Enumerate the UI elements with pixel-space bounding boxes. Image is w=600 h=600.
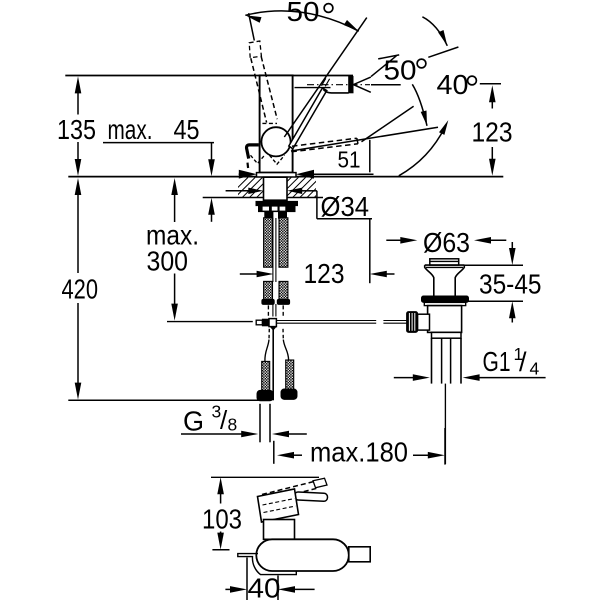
supply hose right mid [279,281,288,299]
waste neck left [425,265,434,296]
front lever dashed upper [262,481,316,495]
50-deg arc 1 [245,11,358,31]
dim 40 ext right [277,576,279,600]
flange arrow right [296,170,314,179]
dim 123h tail right [385,273,395,275]
dim 135 line [77,91,79,114]
dim 420 bottom line [68,399,271,401]
pull rod to drain segment 1 [276,320,376,322]
spout angle tick [378,55,399,59]
grip break tick 1 [322,78,326,86]
spout swung axis S1 [291,127,438,151]
arc1 left arrowhead [245,15,261,22]
max45 lower arrow [208,198,215,215]
dim O34 tail left [226,190,249,192]
rod coupling small box [256,320,262,325]
dim 123h tail left [240,273,259,275]
waste tailpipe outer [431,338,433,383]
nut slot 2 [272,207,278,211]
arc1 right arrowhead [344,20,359,31]
front body neck [264,520,295,540]
dim 3545 arrow up [509,301,516,318]
front spout body capsule [256,539,349,571]
spout angle leader up [371,56,396,77]
dim 420 arrow up [75,178,82,195]
svg-text:35-45: 35-45 [479,268,542,299]
waste flange top [425,264,465,266]
lever position right edge 2 (dashed) [291,144,358,152]
ball joint [261,127,290,156]
spout horizontal dim line [371,84,401,86]
dim 3545 ext bottom [469,300,524,302]
svg-text:/: / [519,347,527,377]
dim 123v arrow up [489,85,496,102]
dim O63 arrow right [474,237,491,244]
max180 ext right [444,428,446,465]
waste plug cap inner line [430,260,459,262]
123 extension lower segment [369,219,371,283]
pull rod horizontal left [167,321,253,323]
hose end cap right [281,389,297,399]
50-deg arc 2 [422,17,447,46]
max180 ext left [273,441,275,464]
svg-text:50: 50 [384,55,417,86]
dim 40 arrow left [230,586,247,593]
grip break tick 2 [325,79,329,87]
hose end cap left [257,391,273,401]
pull rod to drain segment 2 [383,320,406,322]
cartridge hidden line [262,122,277,124]
flange arrow left [239,170,257,179]
lever extreme line L1 [249,13,255,40]
dim 135 arrow up [75,76,82,93]
max-height reference line [65,75,353,77]
dim O34 arrow right [287,188,302,194]
dim 420 line [77,193,79,273]
lever right reference line [428,47,458,57]
dim 3545 arrow down [509,248,516,265]
dim O63 arrow left [400,237,417,244]
dim 40 arrow right [278,586,295,593]
svg-text:4: 4 [530,359,540,379]
lever position up-left edge 2 (dashed) [261,57,277,120]
hose S-curve right [282,329,284,340]
nut slot 3 [280,207,286,211]
lever tube [289,88,327,149]
drain centerline [444,384,446,464]
knob knurl lines [409,313,414,331]
dim G38 line [181,433,243,435]
dim 103 arrow up [217,477,224,494]
dim 103 bottom tick [212,549,229,551]
supply hose right upper [279,218,288,267]
svg-text:135: 135 [57,114,96,145]
51 dim tail [314,173,374,175]
40-deg leader arc [399,124,447,176]
waste lower flange [424,302,465,305]
dim max300 line [174,193,176,222]
spout end open arrow [353,77,370,92]
waste body bottom rim [432,332,462,338]
deck cross-section hatching [228,177,342,197]
svg-text:123: 123 [472,117,513,148]
svg-text:G: G [183,406,204,437]
lever position right edge 1 (dashed) [292,138,357,146]
hose S-curve left [268,329,270,340]
waste neck right [455,265,464,296]
waste rod connector [418,314,430,330]
svg-text:103: 103 [202,504,242,535]
hose connector left [262,361,270,390]
dim O34 arrow left [248,188,263,194]
dim 135 arrow down [75,159,82,176]
dim G38 arrow right [241,431,258,438]
max45 arrow down [208,159,215,176]
front aerator [349,547,370,562]
arc2 arrowhead [438,30,447,46]
hose nut left [265,212,273,218]
dim O63 tail left [386,239,402,241]
lever position up-left edge 1 (dashed) [251,58,267,122]
mounting shank [264,177,288,200]
dim G114 tail right [478,377,546,379]
dim 40 ext left [246,558,248,600]
lever position right tip cap [357,138,358,144]
svg-text:40: 40 [248,573,281,600]
valve seat dashed V left [251,155,265,163]
svg-text:max.: max. [108,114,153,145]
dim 103 arrow down [217,533,224,550]
deck bottom line [203,197,323,199]
svg-text:Ø63: Ø63 [423,227,470,258]
hose nut right [279,212,287,218]
front lever tip [313,478,327,488]
handle swung axis line [362,106,414,142]
svg-text:max.180: max.180 [310,436,408,467]
pop-up rod mid segment [272,304,274,317]
svg-text:45: 45 [174,114,200,145]
svg-text:300: 300 [147,245,189,276]
flange arrow left tail [239,173,241,175]
svg-text:8: 8 [228,415,238,435]
waste gasket [422,296,469,302]
max180 arrow right [428,452,445,459]
dim 3545 ext top [464,264,523,266]
dim 123v tick [480,83,501,85]
pop-up rod upper segment [272,218,274,282]
svg-text:123: 123 [304,258,345,289]
lever grip mid line [295,87,331,89]
103 top reference line [211,476,319,478]
waste plug cap [430,259,459,265]
lever grip end cap [349,76,353,92]
svg-text:40: 40 [437,69,469,100]
shank washer [256,201,298,205]
rod coupling body [269,319,276,327]
waste knurled knob [407,312,418,333]
max180 arrow left [277,452,294,459]
hose ferrule left [262,299,274,304]
supply hose left mid [264,281,273,299]
svg-text:420: 420 [62,274,99,305]
mounting nut [259,206,296,212]
faucet body [260,75,293,172]
supply hose left upper [264,218,273,267]
max45 leader [103,142,214,144]
spout outlet [247,145,259,159]
svg-text:50: 50 [287,0,320,27]
40-deg leader arrowhead [439,120,448,135]
dim G114 arrow left [413,374,430,381]
rod coupling wedge [270,327,277,331]
waste flange bottom [426,266,463,268]
front lever grip [294,492,327,502]
dim 123h arrow left [257,271,274,278]
dim max300 arrow down [171,304,178,321]
valve seat dashed V right [270,155,285,164]
deck top line [68,176,503,178]
front lever dashed lower [265,488,318,502]
rod coupling block [262,319,269,326]
front escutcheon strip [238,554,296,575]
dim G38 arrow left [272,431,289,438]
housing hidden line 1 [263,499,295,506]
lever position up-left tip (dashed) [249,41,261,58]
hose dashed left [267,305,269,315]
svg-text:51: 51 [338,147,361,173]
max45 lower shaft [211,213,213,222]
housing hidden line 2 [264,506,296,513]
dim 123v arrow down [489,159,496,176]
waste tailpipe inner [441,338,443,383]
lever axis dash-dot [307,84,370,86]
40-deg arc arrowhead [421,111,427,126]
dim G38 tail right [287,433,307,435]
dim 123h arrow right [370,271,387,278]
G38 extension lines [259,404,261,443]
waste body [428,306,462,333]
front cartridge housing [258,489,299,522]
dim O34 leader [302,190,317,192]
hose dashed right [282,305,284,315]
faucet centerline lower [272,329,274,401]
hose connector right [286,360,294,389]
dim O63 tail right [489,239,506,241]
dim max300 arrow up [171,178,178,195]
base flange [257,173,297,177]
40-deg arc [412,84,427,126]
123 extension upper segment [369,140,371,173]
lever mid line L2 [284,18,367,137]
spout outlet tick [246,163,249,168]
dim 420 arrow down [75,383,82,400]
svg-text:Ø34: Ø34 [321,191,370,222]
hose ferrule right [277,299,289,304]
dim G114 arrow right [463,374,480,381]
lever grip bottom edge [323,89,348,93]
dim G114 tail left [394,377,415,379]
svg-text:G1: G1 [483,346,511,377]
nut slot 1 [263,207,269,211]
